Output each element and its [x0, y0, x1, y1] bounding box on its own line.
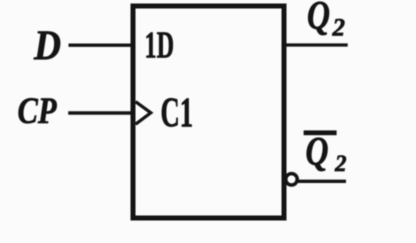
svg-text:C1: C1 [161, 90, 194, 136]
svg-text:D: D [33, 24, 61, 70]
svg-text:Q: Q [307, 0, 330, 38]
dynamic-input triangle (clock edge indicator) [136, 102, 151, 125]
wire: D input [69, 44, 134, 47]
svg-text:CP: CP [18, 91, 57, 132]
svg-text:2: 2 [332, 15, 346, 42]
wire: Q2-bar output [297, 180, 347, 183]
flip-flop U1 (IEC box outline) [133, 6, 284, 218]
wire: CP input [68, 111, 133, 114]
wire: Q2 output [284, 43, 348, 46]
svg-text:2: 2 [334, 151, 347, 176]
bubble (inverted output) [286, 174, 297, 185]
svg-text:Q: Q [306, 129, 329, 174]
svg-text:1D: 1D [145, 24, 175, 66]
overbar of Q2-bar [304, 130, 337, 135]
